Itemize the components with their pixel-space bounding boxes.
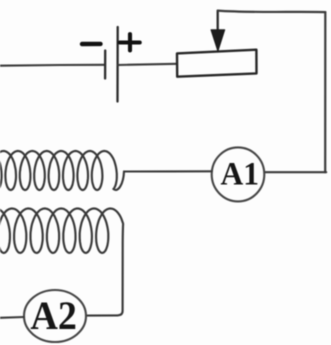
wire W7 ammeter A2 left lead: [0, 316, 24, 319]
ammeter A1 circle: [212, 147, 265, 201]
battery B1 negative plate (short): [104, 51, 106, 79]
rheostat R1 body: [177, 50, 257, 77]
coil L2 bottom (secondary) with lead down to A2: [0, 209, 123, 316]
label plus sign of battery: [120, 34, 140, 50]
rheostat wiper arrow: [211, 11, 225, 52]
wire W4 right vertical drop: [324, 12, 326, 172]
svg-text:A1: A1: [221, 156, 260, 192]
coil L1 top (primary): [0, 151, 124, 190]
ammeter A2 circle: [24, 290, 86, 342]
wire W1 left lead to battery negative: [0, 64, 104, 67]
battery B1 positive plate (long): [116, 27, 118, 102]
wire W3 wiper up and across top: [218, 11, 325, 13]
svg-text:A2: A2: [30, 293, 77, 338]
wire W5 ammeter A1 to right vertical: [264, 171, 326, 173]
label minus sign of battery: [82, 42, 101, 46]
label A1: [221, 156, 260, 192]
wire W6 top coil to ammeter A1: [124, 170, 212, 172]
label A2: [30, 293, 77, 338]
wire W2 battery positive to rheostat: [118, 64, 177, 65]
